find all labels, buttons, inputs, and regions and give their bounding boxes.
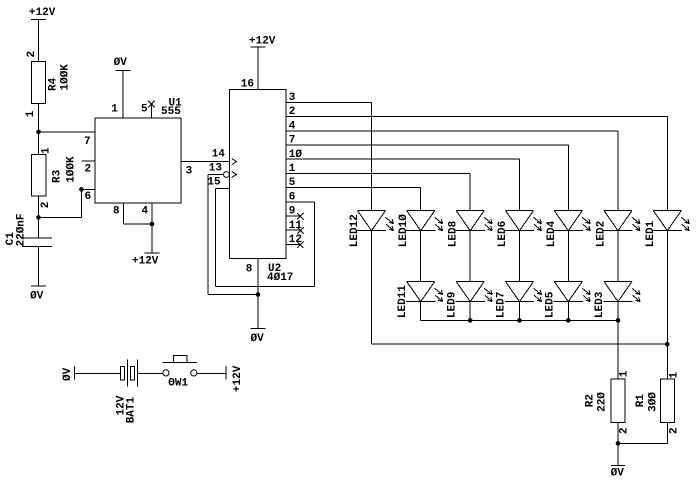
svg-text:3: 3 [289,92,296,104]
svg-text:1: 1 [619,370,631,377]
svg-text:1ØØK: 1ØØK [59,64,71,91]
svg-text:LED6: LED6 [497,221,509,247]
svg-text:R4: R4 [48,77,60,91]
svg-text:1: 1 [669,372,681,379]
svg-text:5: 5 [141,104,148,116]
svg-text:ØV: ØV [611,467,625,479]
svg-text:R2: R2 [585,394,597,407]
svg-text:5: 5 [289,177,296,189]
svg-text:ΘW1: ΘW1 [168,377,188,389]
svg-text:16: 16 [241,78,254,90]
svg-text:555: 555 [161,106,181,118]
svg-text:LED11: LED11 [397,285,409,318]
svg-text:13: 13 [209,163,223,175]
svg-text:LED12: LED12 [349,214,361,247]
svg-text:LED3: LED3 [594,291,606,318]
svg-text:7: 7 [289,135,296,147]
svg-text:LED2: LED2 [596,221,608,247]
svg-text:3: 3 [186,165,193,177]
svg-text:22Ø: 22Ø [597,392,609,412]
svg-text:4: 4 [142,206,149,218]
svg-text:LED8: LED8 [448,220,460,247]
svg-text:2: 2 [669,427,681,434]
svg-text:2: 2 [26,51,38,58]
svg-text:ØV: ØV [30,291,44,303]
svg-text:+12V: +12V [29,7,56,19]
svg-text:1ØØK: 1ØØK [66,156,78,183]
svg-text:BAT1: BAT1 [126,396,138,423]
svg-text:+12V: +12V [232,365,244,392]
svg-text:2: 2 [40,202,52,209]
svg-text:6: 6 [85,191,92,203]
svg-text:2: 2 [619,427,631,434]
svg-text:8: 8 [246,263,253,275]
svg-text:LED4: LED4 [546,220,558,247]
svg-text:12: 12 [289,234,302,246]
svg-text:LED5: LED5 [545,291,557,318]
svg-text:1: 1 [40,147,52,154]
svg-text:6: 6 [289,191,296,203]
svg-text:R1: R1 [635,394,647,408]
svg-text:LED7: LED7 [496,292,508,318]
svg-text:LED1Ø: LED1Ø [398,214,410,247]
svg-text:3ØØ: 3ØØ [648,392,660,412]
svg-text:+12V: +12V [249,35,276,47]
svg-text:4Ø17: 4Ø17 [267,272,293,284]
svg-text:ØV: ØV [62,367,74,381]
svg-text:LED9: LED9 [446,292,458,318]
svg-text:11: 11 [289,220,303,232]
svg-text:R3: R3 [52,169,64,183]
svg-text:14: 14 [212,149,226,161]
svg-text:1: 1 [289,163,296,175]
svg-text:9: 9 [289,206,296,218]
svg-text:1: 1 [25,110,37,117]
svg-text:1Ø: 1Ø [289,149,303,161]
svg-text:2: 2 [289,106,296,118]
svg-text:ØV: ØV [251,333,265,345]
svg-text:LED1: LED1 [645,220,657,247]
svg-text:4: 4 [289,120,296,132]
svg-text:15: 15 [207,176,221,188]
svg-text:22ØnF: 22ØnF [15,213,27,246]
svg-text:8: 8 [113,206,120,218]
svg-text:ØV: ØV [114,57,128,69]
svg-text:2: 2 [85,163,92,175]
svg-text:+12V: +12V [132,256,159,268]
svg-text:7: 7 [84,136,91,148]
svg-text:1: 1 [111,104,118,116]
